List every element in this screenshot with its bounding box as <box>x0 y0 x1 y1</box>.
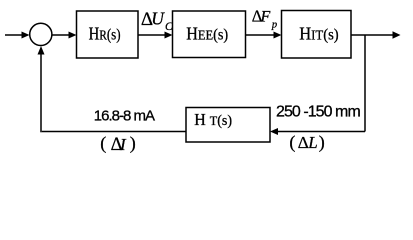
wire output <box>351 31 401 39</box>
wire feedback tap down <box>364 35 366 132</box>
svg-text:L: L <box>307 133 317 152</box>
svg-text:p: p <box>271 19 277 30</box>
block HIT(s) <box>282 11 352 59</box>
label 250-150 mm <box>276 103 360 120</box>
summing junction <box>30 23 52 45</box>
wire feedback to HT block <box>270 128 365 135</box>
label delta-I <box>100 133 136 155</box>
wire HR to HEE <box>138 32 173 39</box>
svg-text:(: ( <box>289 132 295 153</box>
wire input <box>5 32 30 39</box>
label delta-Fp <box>252 7 277 31</box>
wire summing junction to HR <box>52 32 77 39</box>
label 16.8-8 mA <box>94 108 155 125</box>
svg-text:H T(s): H T(s) <box>194 110 232 129</box>
block HT(s) <box>186 108 270 143</box>
svg-text:): ) <box>319 132 325 153</box>
wire HEE to HIT <box>246 32 282 39</box>
label delta-Uc <box>141 9 173 34</box>
wire HT block to left <box>42 131 186 133</box>
svg-text:Δ: Δ <box>298 133 309 152</box>
svg-text:250 -150 mm: 250 -150 mm <box>276 103 360 120</box>
label delta-L <box>289 132 324 153</box>
svg-text:U: U <box>151 9 165 29</box>
svg-text:(: ( <box>100 133 106 154</box>
wire feedback up to summing junction <box>38 46 45 132</box>
svg-text:F: F <box>260 9 271 26</box>
block HEE(s) <box>173 11 246 58</box>
block HR(s) <box>77 11 139 58</box>
svg-text:16.8-8 mA: 16.8-8 mA <box>94 108 155 125</box>
svg-text:): ) <box>130 133 136 154</box>
